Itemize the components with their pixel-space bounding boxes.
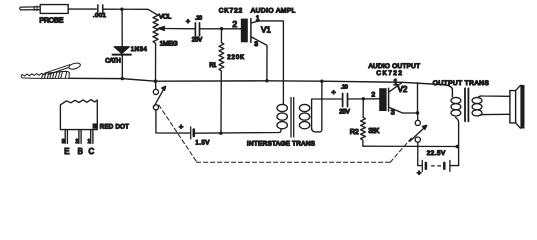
svg-text:25V: 25V [192,38,203,44]
svg-text:R1: R1 [209,63,217,69]
node V1 emitter-rail [265,79,268,82]
wire cap to base V1 [200,28,241,30]
svg-text:CK722: CK722 [376,70,402,77]
wire junction down to diode [121,9,123,46]
interstage transformer T1 [277,98,312,138]
svg-text:+: + [186,16,191,25]
svg-text:2: 2 [76,139,79,145]
dashed mechanical link S1a to S1b [159,105,412,162]
wire output transformer primary bottom [456,117,459,165]
svg-text:PROBE: PROBE [39,16,63,25]
svg-text:R2: R2 [350,127,359,136]
diode 1N34 [113,47,131,55]
wire diode to ground rail [121,56,123,79]
switch S1b [410,120,427,142]
node pot-rail-switch [154,79,158,83]
node R1 bottom [219,132,222,135]
wire pot bottom to rail [155,45,157,81]
svg-text:+: + [417,168,422,177]
node emitter junction [416,111,420,115]
ground rail (common) [69,78,452,96]
wire secondary top to cap C2 [312,98,342,100]
svg-text:RED DOT: RED DOT [100,125,129,131]
wire V2 collector to rail [389,82,402,92]
wire rail down to emitter node [417,83,419,113]
bottom rail V2 stage [363,145,459,147]
output transformer T2 [451,88,482,121]
capacitor C1 .10 25V [195,23,199,36]
svg-text:CK722: CK722 [219,8,243,15]
svg-text:1.5V: 1.5V [195,141,209,147]
svg-text:+: + [331,88,336,97]
battery B1 1.5V [191,127,194,139]
wire secondary to speaker bottom [478,114,510,116]
svg-text:2: 2 [232,19,237,29]
node riser-rail [320,80,323,83]
wire battery to interstage primary bottom [195,130,281,134]
node junction top [120,8,123,11]
transistor V1 [241,19,251,43]
alligator clip [21,62,81,78]
svg-text:.10: .10 [341,85,348,91]
svg-text:33K: 33K [368,126,379,135]
transistor V2 [379,88,388,111]
node R1 top [220,27,223,30]
resistor R1 220K [219,29,224,134]
capacitor C2 .10 25V [343,94,348,107]
svg-text:3: 3 [254,41,258,48]
svg-text:2: 2 [371,91,375,98]
svg-text:1: 1 [88,139,91,145]
svg-text:E: E [64,147,69,156]
wire switch to battery 1.5V [156,110,190,133]
svg-text:V2: V2 [398,85,408,94]
node battery-rail-transformer [456,145,460,149]
wire battery right to node [451,165,459,167]
svg-text:3: 3 [62,139,65,145]
svg-text:C: C [89,147,95,156]
wire V1 collector to interstage primary [252,21,284,105]
svg-text:3: 3 [391,109,395,116]
wire emitter node to switch S1b [417,113,419,120]
wire V1 emitter to rail [252,37,268,81]
battery B2 22.5V [422,160,450,171]
svg-text:1N34: 1N34 [131,47,148,53]
wire switch to battery 22.5V [418,142,422,165]
wire V2 emitter [389,107,416,113]
pot wiper arrow [165,28,195,30]
svg-text:220K: 220K [227,55,244,61]
svg-text:V1: V1 [261,26,271,35]
resistor R2 33K [361,99,366,146]
switch S1a [153,81,165,110]
svg-text:.10: .10 [195,15,202,21]
node R2 top [362,97,365,100]
svg-text:+: + [179,122,184,131]
capacitor .001 [98,5,103,14]
speaker LS [510,85,525,129]
svg-text:22.5V: 22.5V [427,150,446,157]
svg-text:25V: 25V [339,110,350,116]
svg-text:CATH: CATH [105,58,121,64]
svg-text:INTERSTAGE TRANS: INTERSTAGE TRANS [247,140,315,147]
wire secondary to speaker top [478,96,510,98]
transistor socket pictorial [60,100,97,144]
potentiometer VOL 1MEG [153,14,158,45]
svg-text:VOL: VOL [159,14,172,21]
node diode-rail [121,77,124,80]
svg-text:.001: .001 [93,13,106,19]
wire secondary bottom riser to rail [312,81,322,132]
wire C2 to base V2 [348,98,380,100]
svg-text:AUDIO AMPL: AUDIO AMPL [251,8,296,15]
wire capacitor to volume pot [103,9,155,14]
wire probe to capacitor [68,8,96,10]
svg-text:B: B [78,147,83,156]
svg-text:1MEG: 1MEG [160,40,178,47]
svg-text:OUTPUT TRANS: OUTPUT TRANS [433,80,490,87]
red dot marker [93,123,98,128]
probe P1 [20,5,68,14]
